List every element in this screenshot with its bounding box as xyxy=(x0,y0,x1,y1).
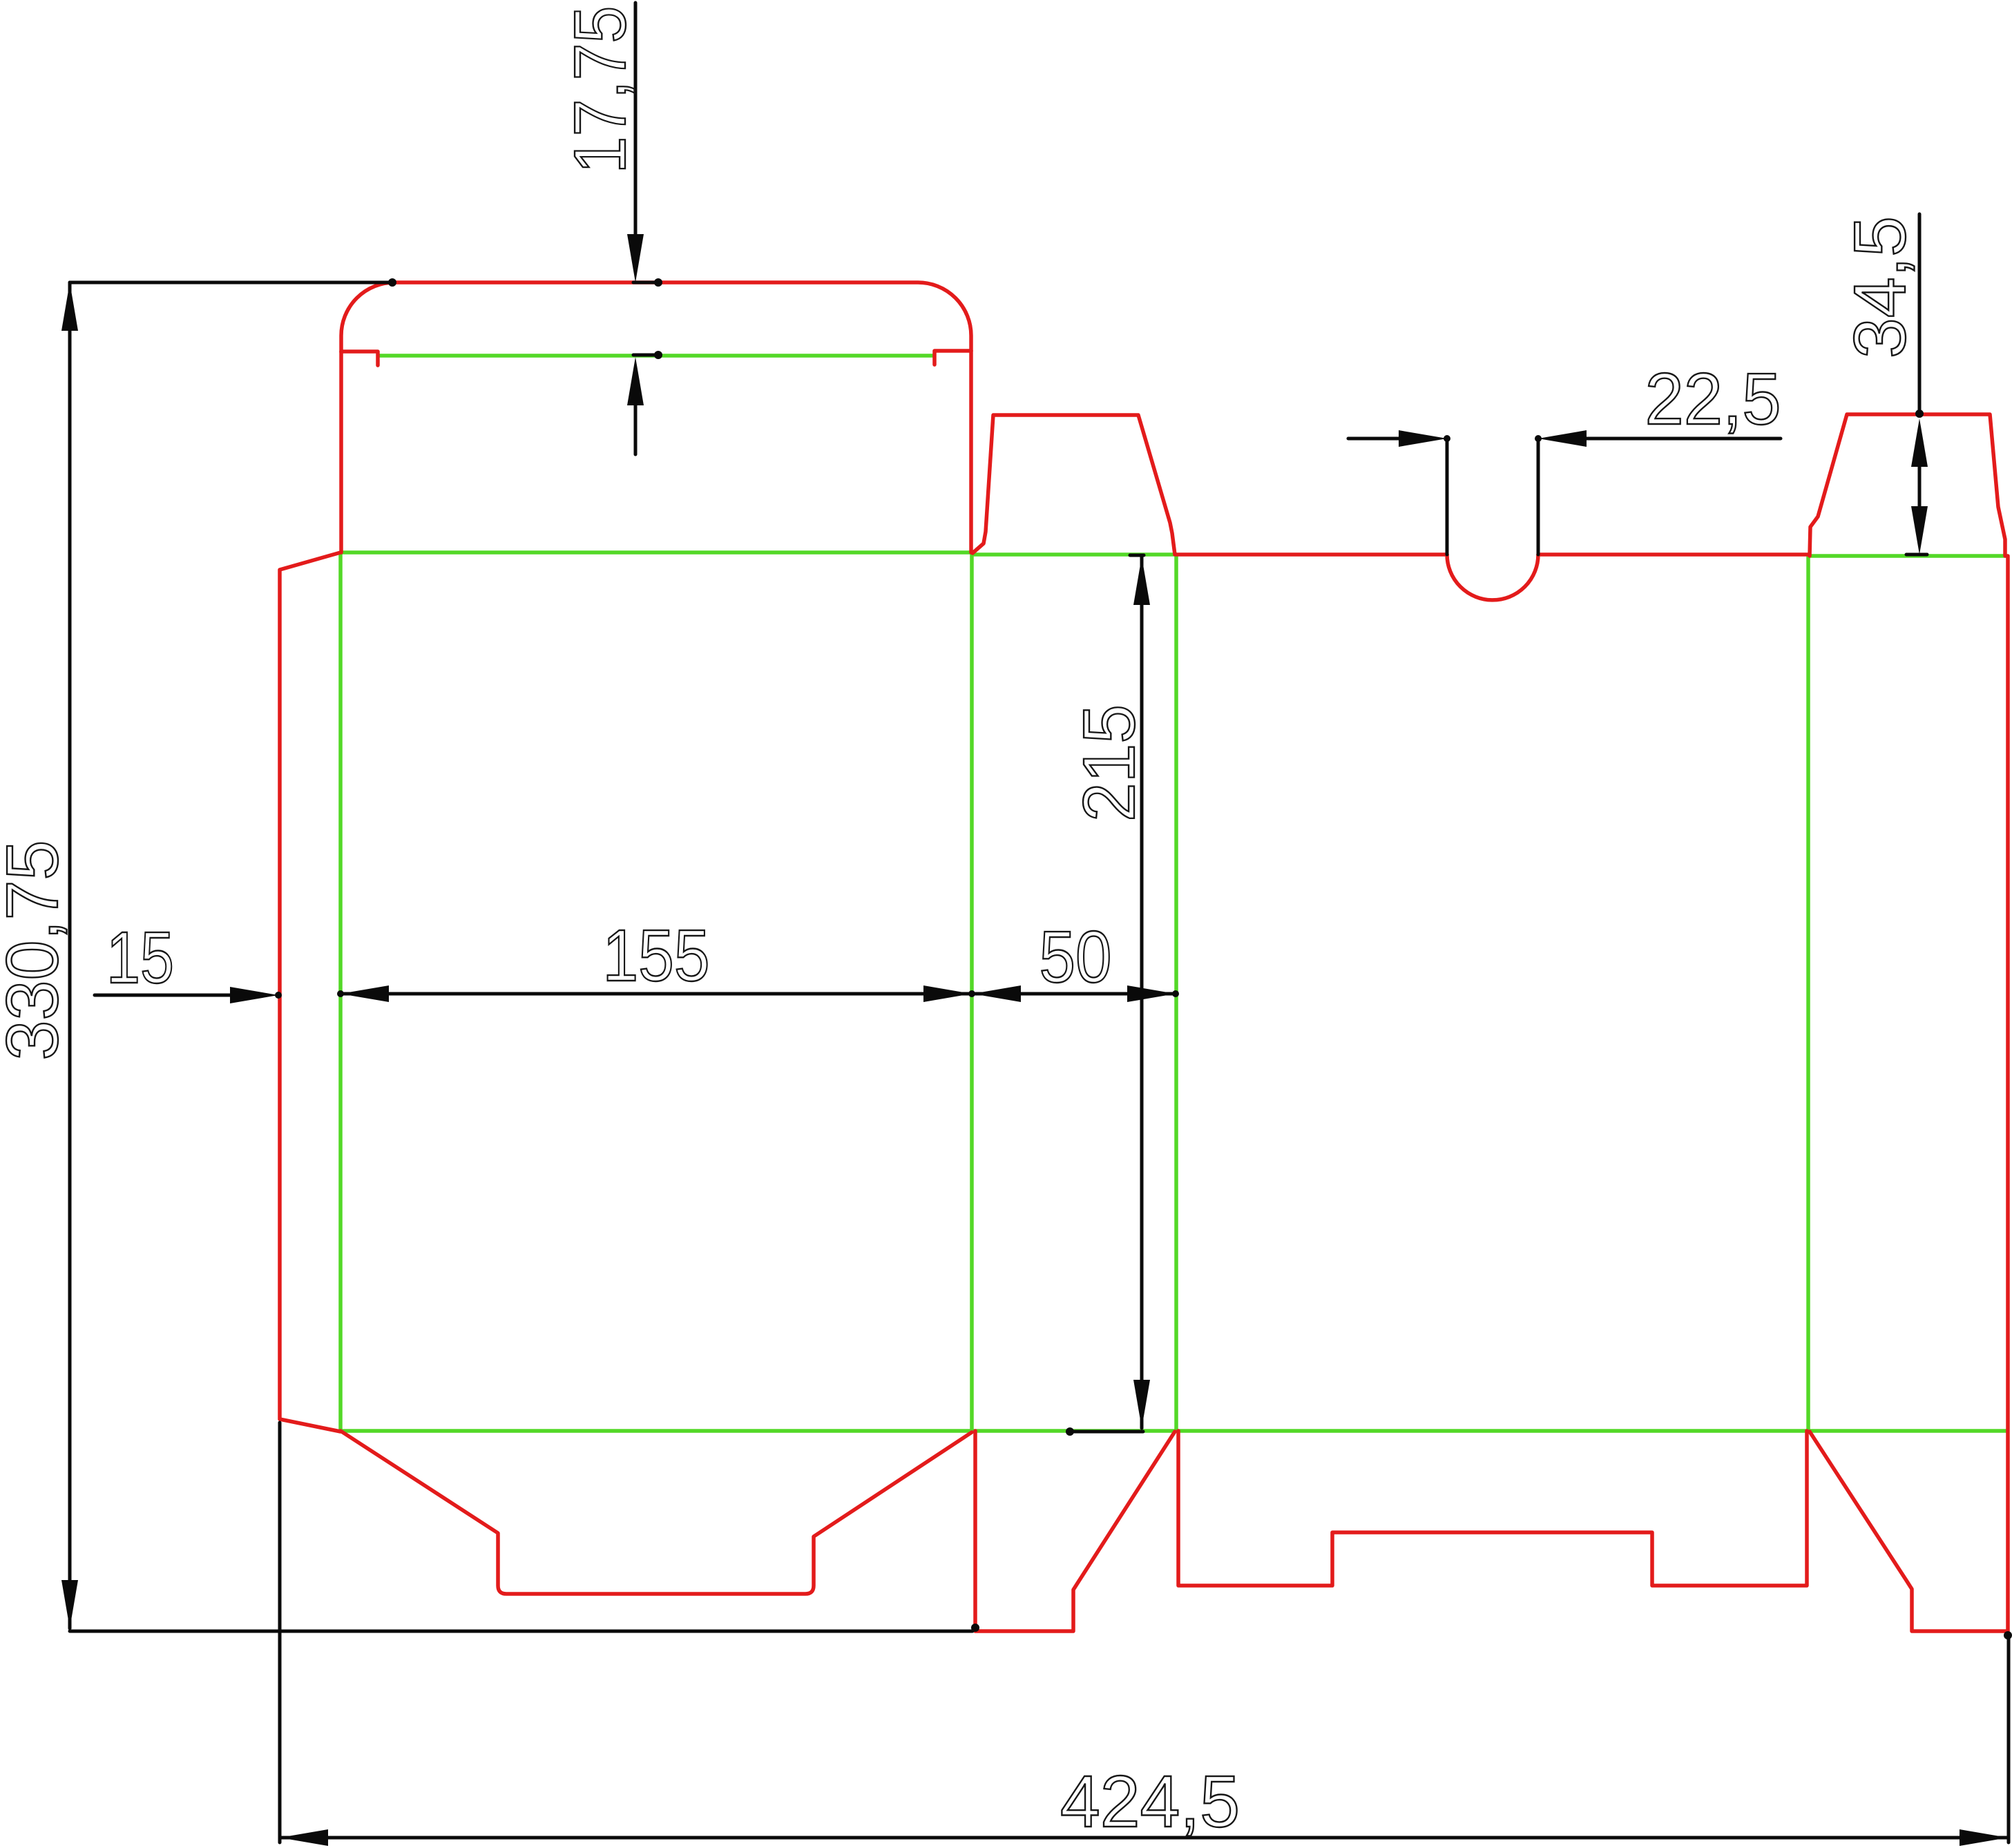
dim 424,5 right extension xyxy=(2007,1635,2011,1842)
dim 215 vertical line xyxy=(1140,557,1144,1428)
vertical crease panel1/panel2 xyxy=(970,552,974,1431)
bottom dust flap below panel2 xyxy=(975,1431,1175,1631)
dim 155 line xyxy=(341,992,972,996)
dim 22,5 left arrowhead xyxy=(1399,430,1447,447)
dim 17,75 dot at flap top xyxy=(654,278,662,287)
dim 424,5 right arrowhead xyxy=(1960,1829,2008,1846)
panel1 top crease xyxy=(341,550,972,555)
dim 15 right arrowhead xyxy=(230,987,278,1003)
dim 34,5 middle shaft xyxy=(1918,467,1922,506)
lid right side edge xyxy=(969,351,973,552)
dim 17,75 up arrowhead xyxy=(627,357,644,405)
dim 17,75 upper extension line xyxy=(634,3,638,238)
dim 330,75 bottom extension dot xyxy=(971,1624,979,1632)
lid left side edge xyxy=(339,352,343,552)
thumb notch semicircle xyxy=(1447,555,1538,600)
dim 34,5 up arrowhead xyxy=(1911,418,1928,467)
panel3 top cut right segment xyxy=(1538,552,1810,557)
dim 330,75 top extension dot xyxy=(388,278,396,287)
svg-text:17,75: 17,75 xyxy=(559,6,641,174)
dim 155 left tip dot xyxy=(337,990,344,997)
dim 424,5 line xyxy=(280,1836,2008,1840)
svg-text:424,5: 424,5 xyxy=(1060,1761,1240,1842)
bottom crease of all panels xyxy=(341,1429,2008,1433)
dim 15 tip dot xyxy=(275,992,282,999)
tuck flap fold crease xyxy=(379,354,933,358)
dim 50 left arrowhead xyxy=(973,985,1021,1002)
dim 17,75 tick at crease xyxy=(633,354,654,357)
tuck flap right shoulder slit xyxy=(935,351,971,365)
dim 22,5 left extension xyxy=(1446,439,1449,555)
dim 22,5 right shaft xyxy=(1587,437,1781,441)
dim 330,75 vertical line xyxy=(68,282,72,1628)
tuck flap left shoulder slit xyxy=(341,352,378,365)
bottom dust flap below panel4 xyxy=(1810,1432,2008,1631)
glue flap outline xyxy=(280,552,341,1432)
vertical crease panel2/panel3 xyxy=(1174,555,1178,1431)
svg-text:22,5: 22,5 xyxy=(1645,358,1781,440)
dim 34,5 down arrowhead xyxy=(1911,506,1928,555)
dim 17,75 tick at flap top xyxy=(633,281,654,285)
dim 50 right arrowhead xyxy=(1127,985,1176,1002)
dim 215 up arrowhead xyxy=(1133,557,1150,605)
dim 50 line xyxy=(973,992,1176,996)
dim 22,5 right arrowhead xyxy=(1538,430,1587,447)
svg-text:215: 215 xyxy=(1069,704,1150,822)
dim 155 left arrowhead xyxy=(341,985,389,1002)
dim 424,5 left arrowhead xyxy=(280,1829,328,1846)
bottom flap below panel3 with tab xyxy=(1178,1431,1807,1586)
tuck flap rounded top xyxy=(341,282,971,352)
panel2 top crease xyxy=(972,552,1177,557)
dim 215 down arrowhead xyxy=(1133,1380,1150,1428)
svg-text:155: 155 xyxy=(603,915,710,997)
dim 17,75 lower tail xyxy=(634,405,638,454)
bottom lid flap below panel1 xyxy=(341,1431,972,1594)
dim 330,75 down arrowhead xyxy=(61,1580,78,1628)
dim 15 line xyxy=(95,994,235,997)
dim 34,5 dot at flap top xyxy=(1915,410,1924,418)
vertical crease glue/panel1 xyxy=(338,552,343,1431)
svg-text:15: 15 xyxy=(106,917,174,999)
dim 22,5 left corner dot xyxy=(1444,435,1450,442)
dim 215 top tick xyxy=(1130,554,1144,557)
svg-text:34,5: 34,5 xyxy=(1839,216,1921,358)
blank right edge xyxy=(2006,556,2010,1631)
vertical crease panel3/panel4 xyxy=(1806,556,1810,1431)
dim 50 right tip dot xyxy=(1172,990,1179,997)
panel3 top cut left segment xyxy=(1176,552,1447,557)
panel4 top crease xyxy=(1808,554,2008,558)
dim 330,75 up arrowhead xyxy=(61,282,78,331)
dim 424,5 right extension origin dot xyxy=(2004,1631,2012,1639)
dim 330,75 bottom extension xyxy=(70,1630,973,1633)
dim 17,75 dot at crease xyxy=(654,351,662,359)
dust flap above panel4 xyxy=(1810,414,2005,556)
dim 330,75 top extension xyxy=(70,281,389,285)
dim 155/50 shared tip dot xyxy=(968,990,975,997)
svg-text:50: 50 xyxy=(1039,916,1112,998)
dim 34,5 upper extension xyxy=(1918,214,1922,414)
dust flap above panel2 xyxy=(973,415,1175,555)
dim 22,5 right corner dot xyxy=(1535,435,1542,442)
svg-text:330,75: 330,75 xyxy=(0,840,73,1061)
dim 155 right arrowhead xyxy=(923,985,972,1002)
dim 34,5 tick at crease xyxy=(1906,553,1927,557)
dim 22,5 right extension xyxy=(1537,439,1540,555)
dim 22,5 left shaft xyxy=(1348,437,1406,441)
dim 215 bottom dot xyxy=(1066,1427,1074,1436)
dim 424,5 left extension xyxy=(278,1423,282,1842)
dim 17,75 down arrowhead xyxy=(627,234,644,282)
dim 215 bottom tick xyxy=(1073,1430,1143,1434)
